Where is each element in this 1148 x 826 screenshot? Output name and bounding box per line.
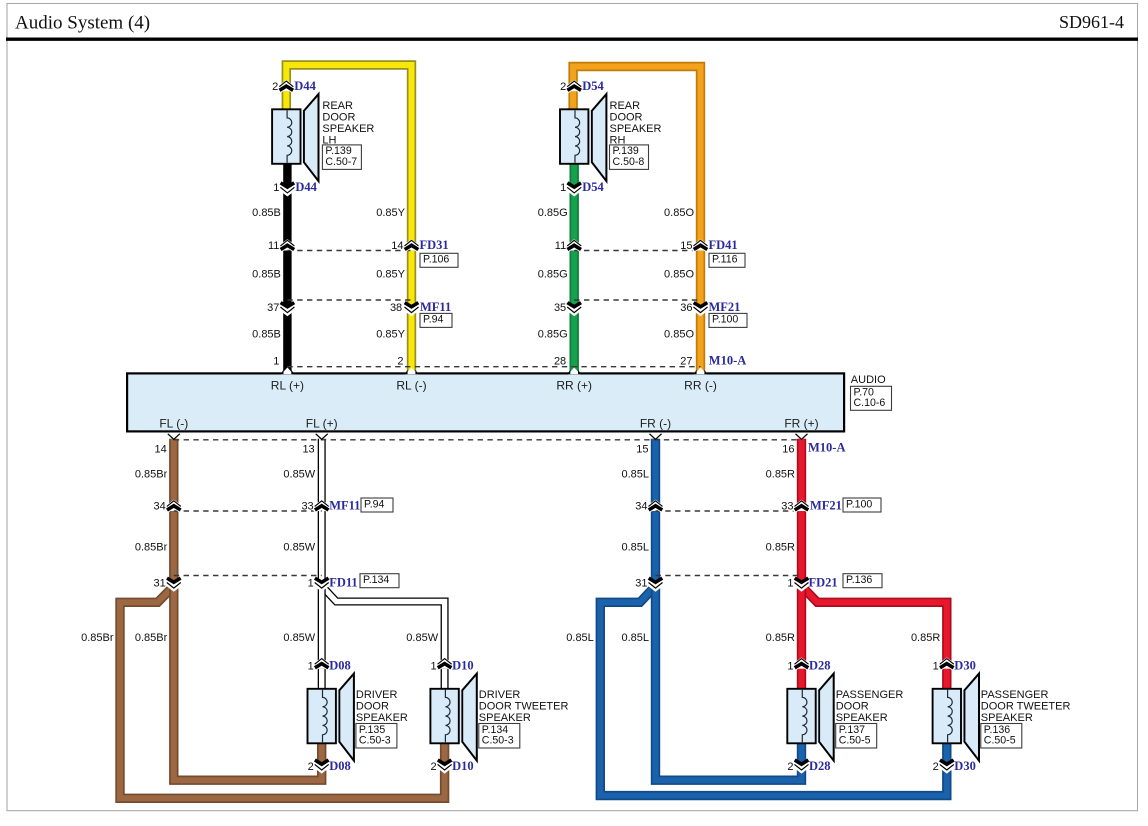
connector D28 pin 2 (blue, down) bbox=[793, 760, 810, 770]
svg-text:0.85Y: 0.85Y bbox=[376, 329, 405, 341]
svg-text:M10-A: M10-A bbox=[709, 354, 747, 368]
svg-text:REAR: REAR bbox=[322, 100, 353, 112]
wire blue stub below passenger speaker bbox=[797, 741, 806, 763]
connector D10 pin 1 (white, up) bbox=[436, 659, 453, 669]
harness dash row FD31 (pins 11-14) bbox=[287, 250, 411, 252]
svg-text:PASSENGER: PASSENGER bbox=[981, 689, 1049, 701]
svg-text:M10-A: M10-A bbox=[808, 441, 846, 455]
svg-text:Audio System (4): Audio System (4) bbox=[15, 12, 150, 33]
wire red FR(+) seg pin33..FD21 pin1 bbox=[797, 511, 806, 582]
svg-text:C.50-3: C.50-3 bbox=[482, 734, 514, 746]
svg-text:FD31: FD31 bbox=[420, 238, 449, 252]
svg-text:REAR: REAR bbox=[610, 100, 641, 112]
audio unit U1 box border bbox=[127, 373, 844, 431]
svg-text:37: 37 bbox=[267, 302, 279, 314]
audio box pin 13 notch bbox=[316, 434, 328, 440]
svg-text:D10: D10 bbox=[452, 759, 474, 773]
connector D44 pin 1 (black, down) bbox=[279, 183, 296, 193]
svg-text:0.85L: 0.85L bbox=[566, 632, 594, 644]
svg-text:2: 2 bbox=[272, 81, 278, 93]
svg-text:0.85Y: 0.85Y bbox=[376, 269, 405, 281]
connector FD31 reference box P.106 bbox=[420, 253, 458, 267]
svg-text:DOOR: DOOR bbox=[610, 112, 643, 124]
svg-text:D54: D54 bbox=[582, 79, 604, 93]
connector D54 pin 1 (green, down) bbox=[566, 183, 583, 193]
connector FD31 pin 14 (yellow, up) bbox=[403, 240, 420, 250]
connector FD21 reference box P.136 bbox=[843, 574, 882, 588]
svg-text:FR (-): FR (-) bbox=[640, 417, 671, 431]
harness dash row MF21 (pins 35-36) bbox=[574, 299, 700, 301]
svg-text:0.85L: 0.85L bbox=[621, 542, 649, 554]
wire orange RR(-) seg FD41..MF21 bbox=[696, 251, 705, 307]
svg-text:0.85W: 0.85W bbox=[283, 469, 315, 481]
svg-text:35: 35 bbox=[554, 302, 566, 314]
svg-text:2: 2 bbox=[933, 761, 939, 773]
audio box pin 14 notch bbox=[168, 434, 180, 440]
svg-text:SPEAKER: SPEAKER bbox=[610, 123, 662, 135]
speaker LS6 PASSENGER DOOR TWEETER SPEAKER bbox=[933, 674, 979, 761]
svg-text:P.94: P.94 bbox=[364, 498, 385, 510]
audio box pin 15 notch bbox=[650, 434, 662, 440]
svg-text:0.85R: 0.85R bbox=[766, 469, 795, 481]
svg-text:C.50-7: C.50-7 bbox=[325, 156, 357, 168]
connector FD11 pin 31 (brown, down) bbox=[165, 578, 182, 588]
svg-text:1: 1 bbox=[560, 182, 566, 194]
svg-text:C.50-5: C.50-5 bbox=[839, 734, 871, 746]
connector D44 pin 2 (yellow, up) bbox=[278, 81, 295, 91]
wire black RL(+) stub below LH speaker bbox=[283, 163, 291, 187]
svg-text:0.85W: 0.85W bbox=[406, 632, 438, 644]
connector D10 pin 2 (brown, down) bbox=[436, 760, 453, 770]
wire red FR(+) branch to passenger tweeter pin1 bbox=[805, 589, 947, 662]
wire blue stub below passenger tweeter bbox=[942, 741, 951, 763]
wire brown FL(-) main run to driver speaker pin2 bbox=[174, 588, 322, 780]
svg-text:0.85G: 0.85G bbox=[538, 329, 568, 341]
connector FD11 pin 1 (white, down) bbox=[313, 578, 330, 588]
svg-text:MF11: MF11 bbox=[329, 499, 360, 513]
svg-text:PASSENGER: PASSENGER bbox=[836, 689, 904, 701]
svg-text:FR (+): FR (+) bbox=[784, 417, 818, 431]
svg-text:15: 15 bbox=[680, 240, 692, 252]
wire black RL(+) seg D44..pin11 bbox=[283, 193, 291, 244]
wire yellow stub into LH speaker bbox=[282, 91, 291, 110]
svg-text:D08: D08 bbox=[329, 658, 351, 672]
svg-text:SPEAKER: SPEAKER bbox=[479, 712, 531, 724]
wire yellow RL(-) speaker loop (pin2 D44 up over to FD31) bbox=[286, 65, 411, 244]
harness dash row FD41 (pins 11-15) bbox=[574, 250, 700, 252]
harness dash below audio box (pins 14-13-15-16) bbox=[174, 439, 802, 441]
svg-text:DOOR TWEETER: DOOR TWEETER bbox=[981, 700, 1071, 712]
svg-text:P.134: P.134 bbox=[363, 574, 389, 586]
svg-text:36: 36 bbox=[680, 302, 692, 314]
speaker LS6 reference box P.136 C.50-5 bbox=[981, 724, 1022, 749]
wire brown FL(-) seg audio pin14..pin34 bbox=[169, 439, 178, 504]
audio box pin 16 notch bbox=[796, 434, 808, 440]
svg-text:1: 1 bbox=[308, 577, 314, 589]
svg-text:SPEAKER: SPEAKER bbox=[356, 712, 408, 724]
wire green RR(+) seg pin35..audio pin28 bbox=[570, 313, 579, 374]
connector MF21 pin 33 (red, up) bbox=[793, 501, 810, 511]
svg-text:0.85R: 0.85R bbox=[766, 542, 795, 554]
svg-text:14: 14 bbox=[391, 240, 403, 252]
svg-text:D08: D08 bbox=[329, 759, 351, 773]
svg-text:2: 2 bbox=[787, 761, 793, 773]
svg-text:0.85G: 0.85G bbox=[538, 269, 568, 281]
svg-text:P.106: P.106 bbox=[423, 254, 449, 266]
svg-text:MF11: MF11 bbox=[420, 300, 451, 314]
harness dash row MF11 lower (pins 34-33) bbox=[174, 510, 322, 512]
svg-text:D28: D28 bbox=[809, 759, 831, 773]
svg-text:D30: D30 bbox=[954, 759, 976, 773]
svg-text:31: 31 bbox=[635, 577, 647, 589]
svg-text:D54: D54 bbox=[582, 180, 604, 194]
connector FD41 pin 15 (orange, up) bbox=[692, 240, 709, 250]
svg-text:P.116: P.116 bbox=[712, 254, 738, 266]
wire white stub into driver tweeter bbox=[441, 669, 449, 690]
speaker LS1 REAR DOOR SPEAKER LH bbox=[272, 94, 318, 181]
connector D28 pin 1 (red, up) bbox=[793, 659, 810, 669]
connector FD21 pin 31 (blue, down) bbox=[647, 578, 664, 588]
svg-text:D28: D28 bbox=[809, 658, 831, 672]
wire orange RR(-) speaker loop (pin2 D54 up over to FD41) bbox=[573, 67, 700, 244]
svg-text:FD41: FD41 bbox=[709, 238, 738, 252]
connector FD41 pin 11 (green, up) bbox=[566, 240, 583, 250]
wire white FL(+) main run FD11..driver speaker pin1 bbox=[318, 588, 326, 662]
svg-text:0.85R: 0.85R bbox=[911, 632, 940, 644]
svg-text:P.100: P.100 bbox=[846, 498, 872, 510]
svg-text:0.85O: 0.85O bbox=[664, 207, 694, 219]
wire blue FR(-) main run to passenger speaker pin2 bbox=[656, 588, 802, 780]
wire black RL(+) seg pin11..pin37 bbox=[283, 251, 291, 307]
speaker LS4 DRIVER DOOR TWEETER SPEAKER bbox=[430, 674, 476, 761]
svg-text:14: 14 bbox=[155, 444, 167, 456]
svg-text:0.85Y: 0.85Y bbox=[376, 207, 405, 219]
wire brown FL(-) branch to tweeter pin2 bbox=[120, 589, 445, 798]
connector MF21 pin 36 (orange, down) bbox=[692, 303, 709, 313]
svg-text:D30: D30 bbox=[954, 658, 976, 672]
svg-text:16: 16 bbox=[782, 444, 794, 456]
speaker LS5 PASSENGER DOOR SPEAKER bbox=[787, 674, 833, 761]
wire green RR(+) seg D54..pin11 bbox=[570, 193, 579, 244]
svg-text:AUDIO: AUDIO bbox=[851, 374, 886, 386]
audio box pin 1 notch bbox=[281, 368, 295, 375]
svg-text:P.100: P.100 bbox=[712, 314, 738, 326]
wire yellow RL(-) seg MF11..audio pin2 bbox=[407, 313, 416, 374]
harness dash row FD21 (pins 31-1) bbox=[656, 575, 802, 577]
audio box pin 2 notch bbox=[405, 368, 419, 375]
svg-text:FD11: FD11 bbox=[329, 575, 357, 589]
svg-text:0.85Br: 0.85Br bbox=[135, 542, 168, 554]
svg-text:0.85Br: 0.85Br bbox=[81, 632, 114, 644]
svg-text:DOOR TWEETER: DOOR TWEETER bbox=[479, 700, 569, 712]
svg-text:1: 1 bbox=[430, 660, 436, 672]
svg-text:0.85L: 0.85L bbox=[621, 632, 649, 644]
svg-text:33: 33 bbox=[781, 501, 793, 513]
wire blue FR(-) seg audio pin15..pin34 bbox=[651, 439, 660, 504]
svg-text:13: 13 bbox=[302, 444, 314, 456]
svg-text:1: 1 bbox=[787, 660, 793, 672]
wire brown FL(-) seg pin34..pin31 bbox=[169, 511, 178, 582]
svg-text:0.85W: 0.85W bbox=[283, 542, 315, 554]
svg-text:0.85B: 0.85B bbox=[252, 207, 281, 219]
connector MF21 reference box P.100 bbox=[709, 313, 747, 327]
svg-text:RR (+): RR (+) bbox=[556, 379, 592, 393]
wire white FL(+) seg pin33..FD11 pin1 bbox=[318, 511, 326, 582]
svg-text:11: 11 bbox=[555, 240, 566, 252]
svg-text:31: 31 bbox=[154, 577, 166, 589]
wire red stub into passenger speaker bbox=[797, 669, 806, 690]
svg-text:D44: D44 bbox=[295, 180, 317, 194]
svg-text:0.85W: 0.85W bbox=[283, 632, 315, 644]
connector MF11 pin 33 (white, up) bbox=[313, 501, 330, 511]
svg-text:0.85B: 0.85B bbox=[252, 269, 281, 281]
svg-text:38: 38 bbox=[390, 302, 402, 314]
harness dash row MF11 (pins 37-38) bbox=[287, 299, 411, 301]
svg-text:SPEAKER: SPEAKER bbox=[836, 712, 888, 724]
svg-text:RR (-): RR (-) bbox=[684, 379, 717, 393]
connector FD31 pin 11 (black, up) bbox=[279, 240, 296, 250]
speaker LS1 reference box P.139 C.50-7 bbox=[322, 145, 361, 170]
wire brown stub below driver speaker bbox=[317, 741, 326, 763]
svg-text:DOOR: DOOR bbox=[836, 700, 869, 712]
svg-text:2: 2 bbox=[560, 81, 566, 93]
connector MF21 reference box P.100 (lower) bbox=[843, 498, 881, 512]
svg-text:34: 34 bbox=[154, 501, 166, 513]
wire green RR(+) stub below RH speaker bbox=[570, 163, 579, 187]
svg-text:FL (+): FL (+) bbox=[306, 417, 338, 431]
connector D30 pin 2 (blue, down) bbox=[938, 760, 955, 770]
wire red stub into passenger tweeter bbox=[942, 669, 951, 690]
svg-text:0.85Br: 0.85Br bbox=[135, 469, 168, 481]
harness dash row FD11 (pins 31-1) bbox=[174, 575, 322, 577]
svg-text:34: 34 bbox=[635, 501, 647, 513]
speaker LS2 REAR DOOR SPEAKER RH bbox=[560, 94, 606, 181]
svg-text:SPEAKER: SPEAKER bbox=[322, 123, 374, 135]
svg-text:MF21: MF21 bbox=[810, 499, 842, 513]
connector D08 pin 2 (brown, down) bbox=[313, 760, 330, 770]
svg-text:33: 33 bbox=[301, 501, 313, 513]
speaker LS4 reference box P.134 C.50-3 bbox=[479, 724, 520, 749]
harness dash above audio box (pins 1-2-28-27) bbox=[287, 366, 700, 368]
wire blue FR(-) branch to passenger tweeter pin2 bbox=[600, 589, 947, 796]
wire white FL(+) seg audio pin13..pin33 bbox=[318, 439, 326, 504]
svg-text:C.50-5: C.50-5 bbox=[984, 734, 1016, 746]
svg-text:0.85R: 0.85R bbox=[766, 632, 795, 644]
svg-text:C.50-3: C.50-3 bbox=[359, 734, 391, 746]
svg-text:D10: D10 bbox=[452, 658, 474, 672]
connector D54 pin 2 (orange, up) bbox=[566, 81, 583, 91]
audio box pin 27 notch bbox=[694, 368, 708, 375]
connector MF11 pin 34 (brown, up) bbox=[165, 501, 182, 511]
speaker LS3 DRIVER DOOR SPEAKER bbox=[308, 674, 354, 761]
wire orange RR(-) seg MF21..audio pin27 bbox=[696, 313, 705, 374]
svg-text:MF21: MF21 bbox=[709, 300, 741, 314]
svg-text:0.85Br: 0.85Br bbox=[135, 632, 168, 644]
svg-text:0.85G: 0.85G bbox=[538, 207, 568, 219]
wire blue FR(-) seg pin34..pin31 bbox=[651, 511, 660, 582]
connector FD21 pin 1 (red, down) bbox=[793, 578, 810, 588]
connector FD11 reference box P.134 bbox=[360, 574, 399, 588]
svg-text:P.136: P.136 bbox=[846, 574, 872, 586]
svg-text:SD961-4: SD961-4 bbox=[1059, 12, 1124, 32]
speaker LS2 reference box P.139 C.50-8 bbox=[610, 145, 649, 170]
connector D08 pin 1 (white, up) bbox=[313, 659, 330, 669]
svg-text:SPEAKER: SPEAKER bbox=[981, 712, 1033, 724]
svg-text:DRIVER: DRIVER bbox=[356, 689, 398, 701]
connector MF21 pin 35 (green, down) bbox=[566, 303, 583, 313]
connector MF11 reference box P.94 bbox=[420, 313, 452, 327]
wire brown stub below driver tweeter bbox=[440, 741, 449, 763]
audio unit reference box P.70 C.10-6 bbox=[851, 386, 892, 410]
svg-text:1: 1 bbox=[273, 356, 279, 368]
header divider (thick rule) bbox=[6, 38, 1138, 41]
wire green RR(+) seg pin11..pin35 bbox=[570, 251, 579, 307]
wire white stub into driver speaker bbox=[318, 669, 326, 690]
svg-text:P.94: P.94 bbox=[423, 314, 444, 326]
svg-text:RL (+): RL (+) bbox=[271, 379, 304, 393]
connector MF11 pin 38 (yellow, down) bbox=[403, 303, 420, 313]
wire black RL(+) seg pin37..audio pin1 bbox=[283, 313, 291, 374]
speaker LS5 reference box P.137 C.50-5 bbox=[836, 724, 877, 749]
svg-text:2: 2 bbox=[430, 761, 436, 773]
svg-text:2: 2 bbox=[397, 356, 403, 368]
svg-text:11: 11 bbox=[268, 240, 279, 252]
connector MF11 reference box P.94 (lower) bbox=[361, 498, 393, 512]
connector MF21 pin 34 (blue, up) bbox=[647, 501, 664, 511]
svg-text:15: 15 bbox=[636, 444, 648, 456]
speaker LS3 reference box P.135 C.50-3 bbox=[356, 724, 397, 749]
wire red FR(+) main run FD21..passenger speaker pin1 bbox=[797, 588, 806, 662]
svg-text:1: 1 bbox=[933, 660, 939, 672]
connector D30 pin 1 (red, up) bbox=[938, 659, 955, 669]
svg-text:0.85B: 0.85B bbox=[252, 329, 281, 341]
audio unit U1 (AUDIO) box fill bbox=[127, 373, 844, 431]
wire white FL(+) branch to tweeter pin1 bbox=[325, 589, 445, 662]
svg-text:DOOR: DOOR bbox=[356, 700, 389, 712]
svg-text:27: 27 bbox=[680, 356, 692, 368]
svg-text:FL (-): FL (-) bbox=[159, 417, 188, 431]
svg-text:28: 28 bbox=[554, 356, 566, 368]
wire orange stub into RH speaker bbox=[568, 91, 577, 110]
svg-text:0.85O: 0.85O bbox=[664, 329, 694, 341]
wire yellow RL(-) seg FD31..MF11 bbox=[407, 251, 416, 307]
audio box pin 28 notch bbox=[567, 368, 581, 375]
svg-text:1: 1 bbox=[787, 577, 793, 589]
svg-text:RL (-): RL (-) bbox=[396, 379, 426, 393]
svg-text:DOOR: DOOR bbox=[322, 112, 355, 124]
svg-text:D44: D44 bbox=[294, 79, 316, 93]
svg-text:0.85L: 0.85L bbox=[621, 469, 649, 481]
svg-text:DRIVER: DRIVER bbox=[479, 689, 521, 701]
svg-text:2: 2 bbox=[308, 761, 314, 773]
wire red FR(+) seg audio pin16..pin33 bbox=[797, 439, 806, 504]
svg-text:1: 1 bbox=[308, 660, 314, 672]
connector MF11 pin 37 (black, down) bbox=[279, 303, 296, 313]
connector FD41 reference box P.116 bbox=[709, 253, 745, 267]
svg-text:1: 1 bbox=[273, 182, 279, 194]
svg-text:C.50-8: C.50-8 bbox=[613, 156, 645, 168]
svg-text:FD21: FD21 bbox=[809, 575, 838, 589]
svg-text:0.85O: 0.85O bbox=[664, 269, 694, 281]
harness dash row MF21 lower (pins 34-33) bbox=[656, 510, 802, 512]
svg-text:C.10-6: C.10-6 bbox=[854, 397, 886, 409]
